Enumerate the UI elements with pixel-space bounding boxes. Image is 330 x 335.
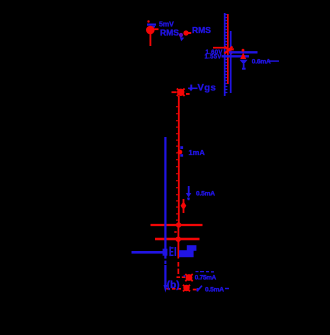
label node X voltages (205, 50, 223, 60)
diode D2 (240, 49, 248, 70)
wire blue lower (222, 55, 250, 57)
current marker on wire (178, 146, 183, 157)
wire blue (right of R1) (230, 31, 232, 93)
resistor R1 (hatched ladder) (225, 13, 228, 96)
transistor Q2 (dashed link) (167, 285, 197, 292)
wire red dashed below C1 (178, 253, 180, 275)
svg-text:0.75mA: 0.75mA (195, 274, 217, 281)
node N1 (172, 89, 190, 97)
svg-text:0.6mA: 0.6mA (252, 59, 271, 66)
svg-text:(b): (b) (167, 280, 180, 291)
voltage source V1 (146, 20, 159, 46)
wire blue below junction (arrow down) (164, 253, 168, 293)
label Q1 current (195, 271, 217, 281)
label V1 value (159, 21, 179, 37)
subfigure label (b) (167, 280, 180, 291)
svg-text:Vgs: Vgs (198, 83, 217, 94)
label Q2 current (205, 287, 229, 294)
label gate node (169, 245, 196, 257)
wire blue vertical (164, 137, 166, 253)
capacitor C1 plate 2 (155, 231, 200, 242)
label D1 (192, 25, 211, 35)
wire blue upper (229, 51, 258, 53)
svg-text:RMS: RMS (192, 25, 211, 35)
wire blue horizontal (gate) (132, 249, 168, 256)
arrow marker Q2 (197, 286, 202, 292)
arrow current A3 (red) (181, 198, 190, 213)
label A2 current (196, 191, 215, 198)
arrow marker at N1 (188, 85, 198, 92)
svg-text:0.5mA: 0.5mA (196, 191, 215, 198)
label D2 current (252, 59, 279, 66)
arrow current A2 (186, 186, 192, 200)
wire red between plates (177, 226, 179, 253)
diode D1 (179, 30, 191, 41)
wire red (over R1) (227, 14, 229, 84)
svg-text:RMS: RMS (160, 28, 179, 38)
node X junction marker (213, 47, 234, 54)
label current (189, 148, 206, 157)
capacitor C1 plate 1 (151, 222, 203, 227)
svg-text:1.55V: 1.55V (205, 54, 222, 60)
transistor Q1 (dashed link) (177, 274, 193, 281)
svg-text:1mA: 1mA (189, 148, 206, 157)
svg-text:0.5mA: 0.5mA (205, 287, 224, 294)
label node N1 (198, 83, 217, 94)
wire red vertical main (176, 96, 179, 226)
